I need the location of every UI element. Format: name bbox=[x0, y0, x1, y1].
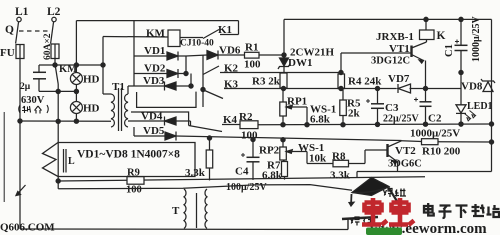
zener DW1 2CW21H bbox=[280, 58, 289, 66]
wire rail bottom lamps bbox=[20, 120, 111, 122]
transistor VT2 bbox=[386, 144, 388, 157]
transistor VT1 base wire bbox=[340, 53, 342, 73]
wire lamp branch to top rail bbox=[75, 21, 77, 65]
potentiometer RP2 bbox=[282, 140, 284, 147]
contact K1 bbox=[180, 37, 203, 39]
secondary tap to K4 bbox=[131, 112, 189, 126]
contactor contact KM bbox=[55, 66, 58, 84]
svg-text:100μ/25V: 100μ/25V bbox=[226, 182, 267, 193]
watermark 电子下载站 (chinese) bbox=[424, 203, 500, 218]
svg-text:DW1: DW1 bbox=[288, 57, 312, 69]
svg-text:10k: 10k bbox=[309, 153, 327, 165]
watermark green badge bbox=[366, 228, 402, 236]
svg-text:K2: K2 bbox=[224, 63, 239, 75]
wire T1 primary feed bbox=[102, 37, 104, 95]
resistor 3.3k vertical bbox=[209, 138, 211, 150]
svg-text:R8: R8 bbox=[332, 151, 346, 163]
transformer T secondary bbox=[205, 189, 207, 228]
svg-text:R1: R1 bbox=[245, 42, 258, 54]
transformer T primary bbox=[184, 189, 186, 228]
transistor VT1 emitter wire + capacitor C2 bbox=[425, 61, 427, 102]
svg-text:FU: FU bbox=[0, 47, 15, 59]
resistor R10 bbox=[402, 140, 422, 143]
svg-text:CJ10-40: CJ10-40 bbox=[180, 39, 214, 49]
resistor R3 bbox=[280, 73, 287, 88]
watermark logo 虫虫 (red) bbox=[362, 198, 414, 225]
resistor R8 bbox=[307, 163, 333, 165]
capacitor 2μ plates bbox=[33, 71, 46, 73]
welding clamp 焊钳 bbox=[352, 178, 389, 196]
wire VD5 row to mid rail bbox=[176, 136, 402, 141]
svg-text:100: 100 bbox=[126, 185, 142, 196]
svg-text:KM: KM bbox=[146, 28, 166, 40]
fuse 60A×2 (L2) bbox=[51, 44, 59, 59]
wire L1 down bbox=[19, 59, 21, 122]
svg-text:6.8k: 6.8k bbox=[310, 114, 331, 126]
lower distribution rail bbox=[258, 123, 492, 126]
wire rail mid lamps bbox=[39, 90, 76, 92]
vertical feeder wire bbox=[133, 21, 135, 86]
resistor R5 bbox=[342, 89, 344, 101]
capacitor C3 bbox=[377, 89, 379, 104]
svg-text:K1: K1 bbox=[218, 24, 232, 36]
contact K4 bbox=[190, 121, 192, 126]
fuse FU (L1) bbox=[16, 45, 24, 59]
svg-text:630V: 630V bbox=[21, 95, 45, 106]
wire K2K3 feeder bbox=[202, 55, 204, 107]
diode VD5 bbox=[133, 127, 135, 136]
relay coil K JRXB-1 bbox=[420, 30, 435, 40]
top-left control rail bbox=[76, 20, 238, 22]
diode VD6 bbox=[186, 55, 207, 56]
svg-text:L2: L2 bbox=[47, 6, 61, 18]
contact K2 bbox=[203, 66, 219, 75]
transformer T core bbox=[196, 193, 198, 228]
svg-text:R3 2k: R3 2k bbox=[252, 76, 281, 88]
emitter ground rail bbox=[357, 171, 492, 173]
capacitor C4 bbox=[252, 140, 254, 158]
junction wires diode bank bbox=[185, 56, 187, 74]
svg-text:1000μ/25V: 1000μ/25V bbox=[471, 16, 482, 62]
contact K3 bbox=[204, 90, 224, 99]
svg-text:2μ: 2μ bbox=[20, 82, 31, 92]
svg-text:RP2: RP2 bbox=[259, 145, 280, 157]
resistor R4 bbox=[338, 74, 345, 89]
zener VD8 and right edge bbox=[491, 19, 493, 92]
diode VD1 bbox=[134, 55, 167, 57]
LED1 bbox=[460, 73, 462, 105]
welding loop top rail bbox=[58, 185, 352, 191]
switch Q link (dashed) bbox=[19, 30, 50, 32]
diode VD2 bbox=[134, 73, 167, 75]
svg-text:VD8: VD8 bbox=[461, 81, 483, 93]
svg-text:JRXB-1: JRXB-1 bbox=[376, 31, 414, 43]
label 焊钳 (chinese) bbox=[384, 189, 407, 198]
svg-text:2k: 2k bbox=[348, 108, 361, 120]
label 焊件 (chinese) bbox=[351, 217, 374, 226]
svg-text:C1: C1 bbox=[444, 44, 455, 57]
svg-text:VD7: VD7 bbox=[388, 73, 410, 85]
svg-text:L: L bbox=[68, 156, 75, 167]
svg-text:60A×2: 60A×2 bbox=[43, 33, 53, 60]
svg-text:R2: R2 bbox=[239, 111, 253, 123]
diode VD7 bbox=[398, 84, 411, 93]
switch Q pole 2 bbox=[51, 22, 54, 44]
secondary tap window wires bbox=[137, 92, 196, 108]
transformer T1 core bbox=[118, 88, 120, 131]
svg-text:Q: Q bbox=[5, 24, 14, 36]
svg-text:1000μ/25V: 1000μ/25V bbox=[410, 128, 460, 140]
welding loop bottom rail bbox=[20, 228, 348, 231]
svg-text:C3: C3 bbox=[385, 102, 399, 114]
left tap wire with arrow bbox=[19, 121, 21, 229]
resistor R1 bbox=[245, 52, 260, 58]
svg-text:HD: HD bbox=[83, 74, 100, 86]
resistor R7 bbox=[283, 160, 285, 162]
svg-text:VD3: VD3 bbox=[143, 75, 165, 87]
svg-text:T: T bbox=[172, 205, 180, 217]
label (纸介) bbox=[19, 105, 49, 114]
svg-text:3DG6C: 3DG6C bbox=[388, 159, 422, 170]
svg-text:C2: C2 bbox=[428, 113, 442, 125]
diode VD3 bbox=[128, 85, 164, 87]
capacitor C1 bbox=[460, 19, 462, 45]
wire KM down bbox=[57, 84, 59, 189]
capacitor 2μ leads bbox=[38, 65, 40, 72]
svg-text:L1: L1 bbox=[15, 6, 29, 18]
svg-text:VD1: VD1 bbox=[144, 45, 165, 57]
svg-text:K3: K3 bbox=[224, 79, 239, 91]
lamp branch wire bbox=[75, 65, 77, 73]
svg-text:VD1~VD8 1N4007×8: VD1~VD8 1N4007×8 bbox=[77, 149, 180, 161]
svg-text:VD2: VD2 bbox=[144, 63, 166, 75]
svg-text:3DG12C: 3DG12C bbox=[371, 56, 410, 67]
transistor VT1 bbox=[410, 46, 412, 58]
svg-text:Q606.COM: Q606.COM bbox=[0, 222, 55, 234]
svg-text:VD6: VD6 bbox=[219, 45, 241, 57]
potentiometer RP1 bbox=[282, 89, 284, 103]
svg-text:VT2: VT2 bbox=[395, 145, 416, 157]
lamp HD1 bbox=[70, 73, 82, 85]
svg-text:22μ/25V: 22μ/25V bbox=[383, 114, 419, 125]
svg-text:6.8k: 6.8k bbox=[262, 170, 283, 182]
svg-text:HD: HD bbox=[83, 103, 100, 115]
wire rail top lamps bbox=[39, 64, 103, 66]
left stray scan line bbox=[3, 112, 5, 202]
svg-text:VD5: VD5 bbox=[143, 125, 165, 137]
resistor R9 bbox=[127, 177, 144, 185]
svg-text:K: K bbox=[437, 30, 446, 42]
lamp HD2 bbox=[70, 102, 82, 114]
svg-text:VT1: VT1 bbox=[389, 43, 410, 55]
transformer T1 secondary bbox=[127, 86, 129, 94]
svg-text:R10 200: R10 200 bbox=[422, 146, 461, 158]
svg-text:C4: C4 bbox=[235, 166, 249, 178]
top rail right section bbox=[284, 18, 492, 20]
transformer T1 primary bbox=[111, 94, 114, 127]
note banner VD1~VD8 bbox=[43, 143, 196, 177]
workpiece line bbox=[347, 219, 349, 230]
wire L2 to KM contact bbox=[54, 59, 56, 66]
svg-text:LED1: LED1 bbox=[467, 101, 493, 112]
resistor R2 bbox=[240, 121, 258, 129]
relay coil KM bbox=[103, 36, 168, 39]
switch Q pole 1 bbox=[16, 22, 19, 44]
svg-text:100: 100 bbox=[244, 59, 261, 71]
svg-text:3.3k: 3.3k bbox=[330, 170, 351, 182]
svg-text:RP1: RP1 bbox=[287, 96, 307, 108]
ground rail bbox=[58, 177, 425, 181]
svg-text:K4: K4 bbox=[223, 114, 238, 126]
welding cable bbox=[389, 188, 405, 213]
svg-text:R4 24k: R4 24k bbox=[348, 76, 382, 88]
diode VD4 bbox=[128, 120, 164, 122]
